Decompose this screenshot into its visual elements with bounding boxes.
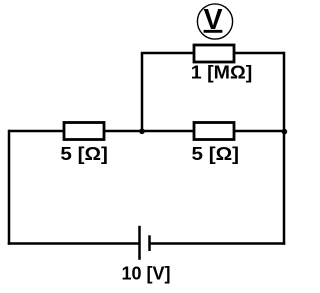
battery V1: short negative plate	[148, 235, 151, 251]
svg-text:5 [Ω]: 5 [Ω]	[60, 144, 108, 164]
wire: left vertical	[8, 130, 11, 245]
junction node B (right, middle wire to right vertical)	[282, 129, 288, 135]
svg-text:1 [MΩ]: 1 [MΩ]	[191, 63, 253, 83]
voltmeter U1: underline of V	[204, 30, 223, 33]
wire: right vertical	[283, 52, 286, 245]
battery V1: long positive plate	[138, 226, 141, 260]
wire: vertical tap from middle node up to voltmeter branch	[141, 53, 144, 131]
wire: bottom left segment to battery	[8, 242, 140, 245]
junction node A (left, middle wire to tap)	[139, 129, 145, 135]
svg-text:5 [Ω]: 5 [Ω]	[192, 144, 240, 164]
voltmeter U1: circle body	[197, 4, 232, 39]
wire: bottom right segment from battery	[150, 242, 286, 245]
resistor R1 1 [MΩ] (voltmeter internal resistance)	[194, 45, 234, 62]
wire: top horizontal (voltmeter branch)	[141, 52, 284, 55]
resistor R3 5 [Ω] right	[194, 123, 234, 140]
svg-text:10 [V]: 10 [V]	[122, 264, 171, 284]
resistor R2 5 [Ω] left	[64, 123, 104, 140]
wire: middle horizontal (node between resistors)	[9, 130, 284, 133]
